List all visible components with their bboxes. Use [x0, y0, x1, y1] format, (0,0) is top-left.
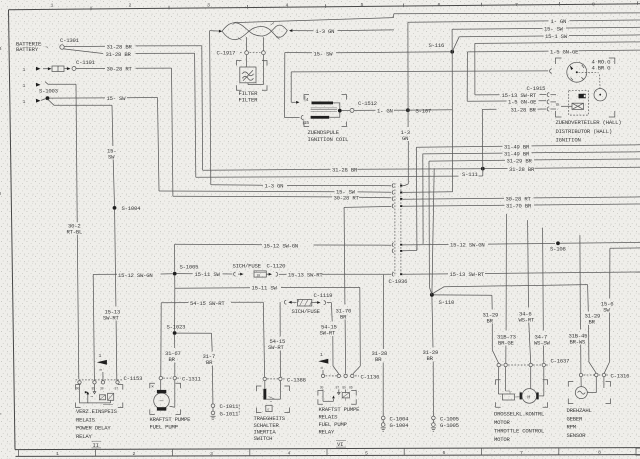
throttle motor M — [530, 367, 532, 389]
wire 15-12 SW-GN upper — [175, 243, 262, 245]
svg-text:RELAY: RELAY — [76, 433, 93, 440]
svg-text:BR: BR — [487, 317, 494, 324]
svg-text:WS-RT: WS-RT — [519, 316, 536, 323]
svg-text:2: 2 — [133, 451, 136, 457]
wire 54-15 SW-RT inertia to pump — [161, 302, 188, 304]
svg-text:31-28 BR: 31-28 BR — [509, 166, 535, 173]
distributor cap — [567, 62, 587, 82]
svg-text:31-28 BR: 31-28 BR — [332, 167, 358, 174]
svg-text:S-1023: S-1023 — [167, 324, 186, 331]
svg-text:GEBER: GEBER — [567, 416, 584, 423]
svg-text:15-11 SW: 15-11 SW — [252, 285, 278, 292]
svg-text:7: 7 — [520, 450, 523, 456]
junction S-108 — [556, 241, 560, 245]
connector C-1936 pin 6 — [392, 249, 393, 253]
wire 15-12 SW-GN right of connector — [403, 244, 449, 246]
svg-text:1: 1 — [320, 352, 323, 358]
coil output junction — [338, 109, 342, 113]
svg-text:C-1136: C-1136 — [361, 373, 380, 380]
svg-text:BR: BR — [589, 319, 596, 326]
svg-text:15- SW: 15- SW — [314, 51, 334, 58]
svg-text:15-1 SW: 15-1 SW — [545, 33, 568, 40]
wire 34-6 WS-RT — [527, 220, 530, 307]
svg-text:RELAIS: RELAIS — [76, 416, 96, 423]
svg-text:RPM: RPM — [567, 424, 576, 431]
svg-text:BR-GE: BR-GE — [498, 339, 515, 346]
wire 15- SW to coil terminal 15 — [285, 52, 312, 54]
svg-text:BR: BR — [427, 355, 434, 362]
svg-text:54-15 SW-RT: 54-15 SW-RT — [190, 300, 225, 307]
svg-text:IGNITION COIL: IGNITION COIL — [308, 136, 349, 143]
svg-text:C-1316: C-1316 — [611, 372, 630, 379]
connector C-1915 pins — [547, 93, 549, 97]
connector C-1917 — [240, 52, 243, 54]
svg-text:31-49 BR: 31-49 BR — [504, 151, 530, 158]
wire 34-7 WS-SW — [542, 228, 545, 331]
ground connector C-1004 — [381, 416, 385, 420]
inertia switch reset button — [266, 405, 272, 411]
svg-text:1-5 GN-GE: 1-5 GN-GE — [550, 48, 579, 55]
wire 1-5 GN-GE to distributor — [467, 50, 548, 53]
svg-text:C-1119: C-1119 — [314, 292, 333, 299]
svg-text:4: 4 — [286, 2, 289, 8]
svg-text:1-5 GN-GE: 1-5 GN-GE — [508, 98, 537, 105]
svg-text:M: M — [527, 394, 530, 400]
inertia switch body — [256, 386, 261, 391]
svg-text:BR: BR — [340, 313, 347, 320]
junction S-116 — [450, 50, 454, 54]
svg-text:C-1512: C-1512 — [358, 100, 377, 107]
svg-text:31-29 BR: 31-29 BR — [507, 158, 533, 165]
svg-text:BATTERY: BATTERY — [16, 46, 39, 53]
svg-text:S-107: S-107 — [416, 107, 432, 114]
svg-text:4: 4 — [306, 97, 309, 103]
relay VI connector C-1136 — [321, 374, 324, 377]
svg-text:C-1637: C-1637 — [551, 357, 570, 364]
relay VI body — [318, 391, 323, 396]
wire 31-28 BR vertical to S-111 run — [201, 46, 204, 170]
relay II internals — [79, 384, 81, 403]
connector C-1637 — [497, 363, 500, 366]
svg-text:o: o — [267, 407, 269, 411]
svg-text:5: 5 — [361, 2, 364, 8]
svg-text:31-70 BR: 31-70 BR — [506, 203, 532, 210]
svg-text:IGNITION: IGNITION — [556, 137, 581, 144]
svg-text:DISTRIBUTOR (HALL): DISTRIBUTOR (HALL) — [556, 128, 612, 135]
wire 1-3 GN into C-1936 pin 1 — [403, 184, 409, 186]
svg-text:6: 6 — [443, 450, 446, 456]
svg-text:30: 30 — [100, 386, 104, 390]
wire 31B-73 BR-GE — [505, 214, 507, 331]
svg-text:C-1153: C-1153 — [124, 375, 143, 382]
svg-text:S-110: S-110 — [439, 299, 456, 306]
svg-text:C-1311: C-1311 — [182, 376, 202, 383]
svg-text:1: 1 — [23, 99, 26, 105]
svg-text:C-1301: C-1301 — [60, 37, 80, 44]
svg-text:87: 87 — [115, 386, 119, 390]
svg-text:MOTOR: MOTOR — [494, 436, 511, 443]
junction S-110 — [430, 293, 434, 297]
svg-text:BR: BR — [206, 359, 213, 366]
wire S-1023 branch — [174, 288, 176, 331]
wire 1-3 GN right — [293, 30, 314, 32]
svg-text:KRAFTST PUMPE: KRAFTST PUMPE — [150, 416, 192, 423]
junction S-107 — [406, 108, 410, 112]
wire 31-70 BR run right — [403, 205, 505, 206]
svg-text:C-1388: C-1388 — [287, 376, 306, 383]
wire 31-7 BR to ground — [177, 332, 212, 334]
svg-text:VERZ.EINSPEIS: VERZ.EINSPEIS — [76, 408, 118, 415]
svg-text:1- GN: 1- GN — [377, 107, 393, 114]
svg-text:-: - — [557, 108, 559, 112]
wire down from S-1005 — [174, 276, 176, 289]
junction S-1023 — [173, 331, 177, 335]
svg-text:8: 8 — [592, 2, 595, 8]
wire to relay II pin 2 — [93, 274, 94, 380]
wire 30-28 RT — [76, 67, 105, 69]
svg-text:THROTTLE CONTROL: THROTTLE CONTROL — [494, 428, 544, 435]
svg-text:S-1003: S-1003 — [39, 88, 58, 95]
wire S-1005 riser — [174, 244, 176, 271]
wire 15-13 SW-RT to C-1936 pin 7 — [279, 273, 287, 275]
wire 31-28 BR to ground G-1004 — [382, 275, 384, 349]
svg-text:S-1004: S-1004 — [122, 205, 142, 212]
connector C-1936 pin 5 — [392, 243, 393, 247]
ground G-1011 — [211, 411, 215, 415]
wire 1-3 GN vertical (left) — [210, 31, 211, 185]
coil HT wire terminal 4 to distributor — [291, 71, 548, 72]
svg-text:1-3 GN: 1-3 GN — [316, 28, 335, 35]
wire 15- SW down to coil — [284, 53, 286, 118]
junction S-1003 — [41, 99, 46, 101]
svg-text:85: 85 — [342, 385, 346, 389]
wire 31-28 BR from distributor — [482, 108, 496, 110]
wire 1- GN top run — [408, 21, 549, 22]
wire 31-28 BR T-junction vertical to S-110 — [432, 168, 434, 294]
wire 31-70 BR pin 4 left — [344, 206, 391, 207]
svg-text:15-12 SW-GN: 15-12 SW-GN — [118, 272, 153, 279]
wire 31-29 BR to throttle motor — [434, 294, 492, 296]
wire 15- SW from S-1003 — [49, 97, 105, 99]
svg-text:30-28 RT: 30-28 RT — [334, 195, 360, 202]
connector C-1316 — [579, 373, 582, 376]
svg-text:POWER DELAY: POWER DELAY — [76, 425, 111, 432]
svg-text:15- SW: 15- SW — [544, 26, 564, 33]
wire 31-49 BR run 2 — [423, 152, 503, 155]
wire 31-29 BR S-110 to ground G-1005 — [432, 296, 433, 347]
svg-text:S-1005: S-1005 — [180, 264, 199, 271]
wire 31-70 BR vertical to relay VI — [343, 207, 346, 304]
svg-text:C-1101: C-1101 — [76, 59, 96, 66]
fuel pump connector C-1311 — [159, 376, 162, 379]
wire tap to top right — [234, 18, 394, 23]
svg-text:GN: GN — [402, 135, 408, 142]
svg-text:30: 30 — [320, 385, 324, 389]
wire 15- SW down from S-116 to C-1936 pin 2 — [451, 52, 453, 192]
svg-text:C-1915: C-1915 — [527, 85, 546, 92]
svg-text:2: 2 — [129, 3, 132, 9]
svg-text:C-1011: C-1011 — [220, 403, 240, 410]
svg-text:5: 5 — [365, 450, 368, 456]
svg-text:1: 1 — [51, 3, 54, 9]
svg-text:31-28 BR: 31-28 BR — [106, 51, 132, 58]
svg-text:RELAY: RELAY — [319, 428, 336, 435]
svg-text:TRAEGHEITS: TRAEGHEITS — [254, 415, 286, 422]
wire 15- SW up from S-116 — [451, 29, 453, 51]
connector C-1936 pin 4 — [392, 204, 393, 208]
throttle motor wiring — [497, 367, 499, 394]
svg-text:G-1005: G-1005 — [440, 422, 459, 429]
svg-text:1: 1 — [99, 353, 102, 359]
svg-text:6: 6 — [438, 2, 441, 8]
wire 15-13 SW-RT from S-1003 down — [48, 99, 55, 105]
svg-text:15-12 SW-GN: 15-12 SW-GN — [450, 242, 485, 249]
svg-text:15-11 SW: 15-11 SW — [195, 271, 221, 278]
wire 15-12 SW-GN lower — [93, 273, 117, 275]
wire 15-11 SW to fuse — [177, 273, 193, 275]
wire 31-49 BR run 1 — [416, 145, 502, 148]
ground connector C-1011 — [211, 404, 215, 408]
svg-text:.: . — [557, 93, 559, 97]
svg-text:SICH/FUSE: SICH/FUSE — [292, 308, 321, 315]
fuel pump body brackets — [150, 383, 155, 388]
svg-text:87: 87 — [336, 385, 340, 389]
distributor cap HT connector — [550, 69, 552, 73]
fuse C-1120 — [234, 272, 236, 276]
distributor rotor — [599, 75, 601, 89]
fuel pump motor — [160, 380, 162, 393]
svg-text:BR-WS: BR-WS — [570, 338, 587, 345]
svg-text:SENSOR: SENSOR — [567, 432, 587, 439]
svg-text:15- SW: 15- SW — [107, 95, 127, 102]
connector C-1301 — [60, 45, 64, 49]
svg-text:C-1120: C-1120 — [267, 263, 287, 270]
svg-text:RELAIS: RELAIS — [319, 413, 339, 420]
rpm sensor body — [568, 382, 573, 387]
svg-text:1- GN: 1- GN — [551, 18, 567, 25]
svg-text:C-1936: C-1936 — [389, 278, 408, 285]
wire 30-28 RT run right — [403, 198, 504, 199]
coil corner brackets — [304, 95, 309, 100]
svg-text:SW: SW — [108, 153, 115, 160]
junction S-111 — [481, 167, 485, 171]
border frame top — [9, 4, 640, 10]
svg-text:86: 86 — [349, 385, 353, 389]
relay II connector C-1153 — [78, 381, 81, 384]
stray scan marks — [238, 405, 240, 415]
svg-text:SICH/FUSE: SICH/FUSE — [233, 263, 262, 270]
svg-text:ZUENDVERTEILER (HALL): ZUENDVERTEILER (HALL) — [556, 119, 622, 126]
wire 31-28 BR (battery 2) — [64, 49, 104, 54]
wire 1- GN up to top run — [407, 22, 409, 127]
wire 31B-45 BR-WS — [579, 235, 582, 329]
svg-text:FUEL PUMP: FUEL PUMP — [319, 421, 348, 428]
svg-text:20: 20 — [257, 273, 261, 277]
wire 31-28 BR second vertical — [195, 53, 196, 177]
wire 30-2 RT-BL — [45, 82, 48, 85]
connector C-1936 pin 2 — [392, 190, 393, 194]
svg-text:S-111: S-111 — [462, 171, 479, 178]
svg-text:1: 1 — [23, 67, 26, 73]
svg-text:8: 8 — [598, 450, 601, 456]
svg-text:BR: BR — [169, 356, 176, 363]
border frame left — [9, 10, 16, 450]
wire 15-13 SW-RT to distributor — [475, 42, 640, 44]
svg-text:SW: SW — [603, 306, 610, 313]
svg-text:RT-BL: RT-BL — [67, 228, 83, 235]
filter corner brackets — [237, 61, 242, 66]
hall sensor box — [569, 91, 589, 115]
inline fuse C-1101 — [43, 68, 48, 70]
svg-text:15-13 SW-RT: 15-13 SW-RT — [288, 272, 323, 279]
filter box — [240, 67, 256, 83]
junction S-1005 — [173, 272, 177, 276]
connector C-1936 strip — [394, 183, 396, 276]
svg-text:G-1011: G-1011 — [220, 410, 240, 417]
wire 1- GN — [354, 109, 375, 111]
svg-text:WS-SW: WS-SW — [534, 339, 551, 346]
svg-text:31-28 BR: 31-28 BR — [511, 106, 537, 113]
connector C-1936 pin 1 — [392, 184, 393, 188]
wire 15- SW vertical to C-1936 — [158, 98, 160, 192]
bottom title strip — [15, 448, 640, 450]
svg-text:4: 4 — [288, 451, 291, 457]
fuse C-1119 — [279, 302, 281, 336]
svg-text:DREHZAHL: DREHZAHL — [567, 407, 592, 414]
svg-text:C-1917: C-1917 — [217, 50, 236, 57]
svg-text:4 BR G: 4 BR G — [592, 64, 612, 71]
connector C-1936 pin 3 — [392, 197, 393, 201]
svg-text:30-28 RT: 30-28 RT — [107, 66, 133, 73]
svg-text:FUEL PUMP: FUEL PUMP — [150, 424, 179, 431]
svg-text:1: 1 — [56, 451, 59, 457]
wire 31-29 BR to rpm sensor — [434, 287, 445, 293]
filter input wires — [246, 37, 248, 51]
wire 31-28 BR (battery 1) — [64, 45, 105, 47]
svg-text:0: 0 — [556, 102, 559, 108]
wire down to fuel pump relay — [359, 287, 362, 366]
svg-text:1-3 GN: 1-3 GN — [265, 183, 284, 190]
svg-text:3: 3 — [207, 2, 210, 8]
coil terminal 15 connector — [301, 115, 303, 119]
svg-text:7: 7 — [515, 2, 518, 8]
wire 30-28 RT vertical to C-1936 — [172, 68, 173, 196]
ground G-1005 — [432, 423, 436, 427]
ground G-1004 — [381, 423, 385, 427]
svg-text:MOTOR: MOTOR — [494, 419, 511, 426]
svg-text:S-108: S-108 — [550, 245, 566, 252]
svg-text:SWITCH: SWITCH — [254, 435, 273, 442]
connector C-1512 — [342, 110, 350, 112]
svg-text:G-1004: G-1004 — [390, 422, 410, 429]
svg-text:15: 15 — [304, 120, 310, 126]
ground connector C-1005 — [432, 416, 436, 420]
svg-text:KRAFTST PUMPE: KRAFTST PUMPE — [319, 406, 361, 413]
inertia switch connector C-1388 — [263, 377, 266, 380]
svg-text:DROSSELKL.KONTRL: DROSSELKL.KONTRL — [494, 411, 544, 418]
svg-text:30-28 RT: 30-28 RT — [506, 196, 532, 203]
distributor corner brackets — [556, 58, 562, 64]
wire 31-29 BR run — [429, 159, 505, 162]
wire 31-28 BR from distributor down to S-111 — [481, 109, 484, 176]
rpm sensor symbol — [580, 377, 582, 387]
svg-text:1: 1 — [23, 83, 26, 89]
svg-text:15-13 SW-RT: 15-13 SW-RT — [450, 271, 485, 278]
wire 15-13 SW-RT right of connector — [403, 273, 448, 275]
svg-text:15-12 SW-GN: 15-12 SW-GN — [264, 242, 299, 249]
svg-text:SW-RT: SW-RT — [103, 314, 120, 321]
svg-text:31-28 BR: 31-28 BR — [107, 44, 133, 51]
wire 31-67 BR to pump — [174, 335, 176, 348]
junction S-1004 — [113, 206, 117, 210]
svg-text:90: 90 — [76, 386, 80, 390]
relay II body — [76, 385, 81, 390]
wire 54-15 SW-RT to relay VI — [327, 302, 332, 304]
svg-text:SW-RT: SW-RT — [268, 344, 285, 351]
relay VI internals — [322, 390, 324, 402]
svg-text:3: 3 — [210, 451, 213, 457]
wire 15-1 SW diagonal from S-116 — [452, 37, 459, 52]
svg-text:SW-RT: SW-RT — [320, 330, 337, 337]
wire 15-11 SW lower — [175, 287, 250, 289]
svg-text:S-116: S-116 — [429, 42, 445, 49]
throttle motor body — [496, 380, 501, 385]
svg-text:BR: BR — [375, 356, 382, 363]
svg-text:FILTER: FILTER — [239, 96, 259, 103]
connector C-1936 pin 7 — [392, 272, 393, 276]
svg-text:15- SW: 15- SW — [336, 189, 356, 196]
wire 15-6 SW — [610, 247, 640, 249]
twisted pair wires — [210, 30, 221, 33]
